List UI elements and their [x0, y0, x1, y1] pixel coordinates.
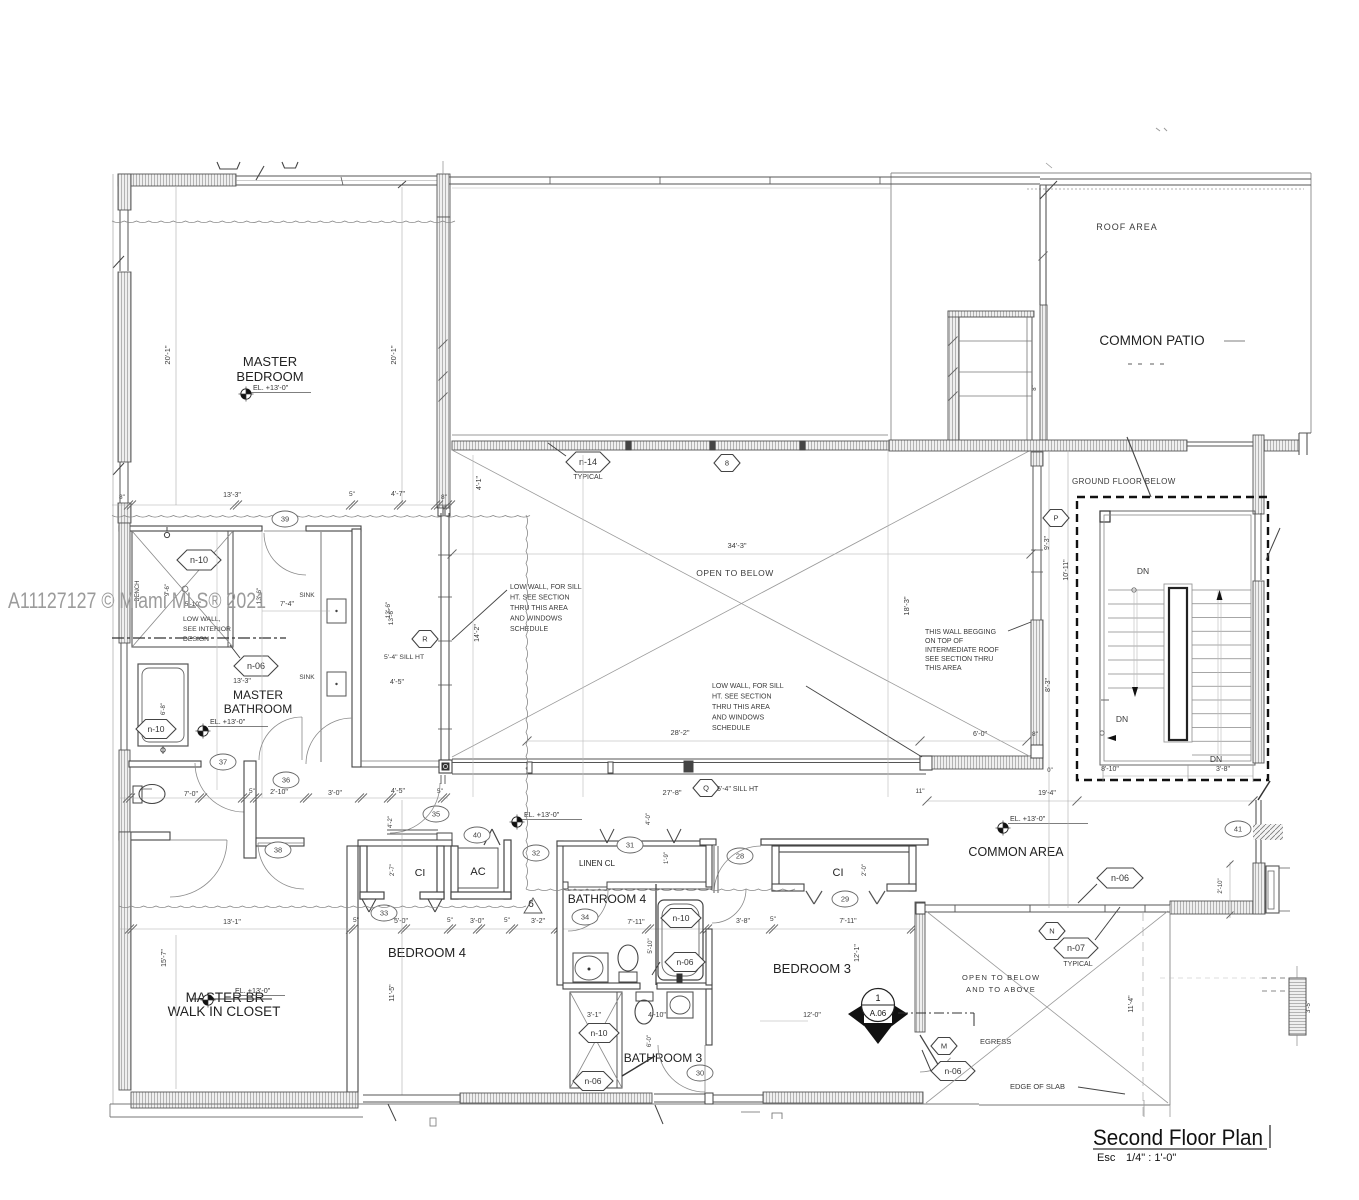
posts top band — [626, 441, 631, 450]
wall bedroom3 east hatch — [915, 902, 925, 1032]
wall linen west — [557, 841, 563, 985]
window band east — [1266, 866, 1279, 913]
vertical dims right of open below — [1048, 452, 1050, 908]
stair right hatch band — [1253, 581, 1264, 763]
corridor dim row — [119, 797, 448, 799]
svg-text:BATHROOM: BATHROOM — [224, 702, 292, 716]
svg-text:11": 11" — [915, 788, 925, 795]
wall open below east: hatch top — [1031, 452, 1043, 466]
svg-text:n-10: n-10 — [672, 913, 689, 923]
window band roof top — [449, 176, 1040, 178]
oval 29 — [832, 891, 858, 907]
toilet bathroom4 — [618, 945, 638, 971]
svg-text:SINK: SINK — [299, 674, 315, 681]
svg-text:SINK: SINK — [299, 592, 315, 599]
window east open below — [1032, 466, 1034, 620]
svg-text:4'-10": 4'-10" — [648, 1012, 666, 1019]
svg-text:n-07: n-07 — [1067, 943, 1085, 953]
hexagon Q — [693, 780, 719, 797]
svg-text:n-10: n-10 — [147, 724, 164, 734]
svg-text:EDGE OF SLAB: EDGE OF SLAB — [1010, 1082, 1065, 1091]
wall east hatch lower (begging wall) — [1031, 620, 1043, 745]
svg-text:7'-0": 7'-0" — [184, 791, 198, 798]
door arc master bathroom entry — [264, 533, 306, 575]
svg-text:14'-2": 14'-2" — [474, 624, 481, 642]
wall master bathroom west hatch upper — [119, 523, 130, 643]
extension lines right stair — [1143, 1100, 1145, 1117]
svg-text:Second Floor Plan: Second Floor Plan — [1093, 1125, 1263, 1150]
low wall open below west — [440, 513, 442, 760]
wall corner NE master bedroom — [437, 174, 450, 217]
roof drain brackets top — [217, 162, 240, 169]
svg-text:ROOF AREA: ROOF AREA — [1096, 222, 1158, 232]
AC door mark — [484, 829, 492, 845]
wall linen north — [557, 841, 712, 846]
section marker 1/A.06 — [848, 1004, 864, 1026]
hexagon M — [931, 1038, 957, 1055]
patio west door mark — [1040, 181, 1057, 199]
wall divider vertical — [244, 761, 256, 858]
window master bedroom north band — [236, 175, 437, 177]
wall stub right — [1264, 440, 1299, 451]
hexagon n-14 typical — [566, 452, 610, 472]
svg-text:8": 8" — [1032, 385, 1038, 390]
svg-text:n-14: n-14 — [579, 457, 597, 467]
door arc corridor to common — [440, 775, 442, 784]
wall master bedroom north — [118, 174, 236, 186]
corner column common — [1253, 863, 1265, 914]
hexagon R — [412, 631, 438, 648]
dashed boundary ground floor below — [1077, 497, 1268, 780]
oval 28 — [727, 848, 753, 864]
svg-text:13'-6": 13'-6" — [388, 608, 395, 625]
svg-text:LINEN CL: LINEN CL — [579, 859, 616, 868]
wall toilet south / closet north — [119, 832, 170, 840]
svg-text:3'-8": 3'-8" — [736, 918, 750, 925]
oval 31 — [617, 837, 643, 853]
svg-text:EGRESS: EGRESS — [980, 1037, 1011, 1046]
svg-text:40: 40 — [473, 831, 481, 840]
wall vertical right of stairs top — [1253, 435, 1264, 514]
hexagon n-10 bathroom4 — [661, 909, 701, 928]
sink bathroom4 — [573, 953, 608, 982]
svg-text:31: 31 — [626, 841, 634, 850]
oval 30 — [687, 1065, 713, 1081]
svg-text:5": 5" — [504, 917, 511, 924]
window master bedroom west upper — [119, 210, 121, 271]
wall closet east — [347, 846, 358, 1092]
svg-text:13'-3": 13'-3" — [223, 492, 241, 499]
svg-text:5": 5" — [249, 788, 256, 795]
svg-text:BEDROOM: BEDROOM — [236, 369, 303, 384]
svg-text:1/4" : 1'-0": 1/4" : 1'-0" — [1126, 1152, 1176, 1164]
wall block west — [118, 503, 131, 523]
dim 2-10 extent — [1229, 862, 1231, 918]
vanity counter master bathroom — [320, 532, 322, 762]
left outer slab line — [112, 174, 114, 1104]
svg-text:29: 29 — [841, 895, 849, 904]
svg-text:20'-1": 20'-1" — [163, 345, 172, 364]
wall common east thick — [1170, 901, 1265, 914]
svg-text:8: 8 — [725, 459, 729, 468]
svg-text:5": 5" — [447, 917, 454, 924]
hexagon n-06 egress — [931, 1062, 975, 1081]
svg-text:THRU THIS AREA: THRU THIS AREA — [712, 704, 770, 711]
svg-text:INTERMEDIATE ROOF: INTERMEDIATE ROOF — [925, 647, 999, 654]
svg-text:30: 30 — [696, 1069, 704, 1078]
svg-text:LOW WALL, FOR SILL: LOW WALL, FOR SILL — [510, 584, 582, 591]
open to below and above diagonals — [926, 911, 1168, 1103]
svg-text:Q: Q — [703, 784, 709, 793]
hexagon N — [1039, 923, 1065, 940]
svg-text:N: N — [1049, 927, 1054, 936]
svg-text:8'-10": 8'-10" — [1101, 766, 1119, 773]
svg-text:3'-5": 3'-5" — [1306, 1001, 1312, 1013]
extension lines — [472, 455, 474, 797]
svg-text:AND WINDOWS: AND WINDOWS — [510, 616, 562, 623]
svg-text:THIS WALL BEGGING: THIS WALL BEGGING — [925, 629, 996, 636]
svg-text:12'-0": 12'-0" — [803, 1012, 821, 1019]
stair enclosure — [1100, 511, 1255, 765]
svg-text:5": 5" — [353, 917, 360, 924]
oval 35 — [423, 806, 449, 822]
oval 34 — [572, 909, 598, 925]
svg-text:6'-0": 6'-0" — [973, 731, 987, 738]
svg-text:MASTER: MASTER — [243, 354, 297, 369]
wall bathroom4 south — [563, 983, 640, 989]
svg-text:DN: DN — [1210, 754, 1222, 764]
svg-text:5'-4" SILL HT: 5'-4" SILL HT — [717, 786, 759, 793]
hexagon n-10 tub — [136, 720, 176, 739]
svg-text:BEDROOM 3: BEDROOM 3 — [773, 961, 851, 976]
svg-text:TYPICAL: TYPICAL — [573, 474, 602, 481]
svg-text:A11127127 © Miami MLS® 2021: A11127127 © Miami MLS® 2021 — [8, 588, 266, 613]
svg-text:MASTER: MASTER — [233, 688, 283, 702]
low wall common area — [922, 904, 1170, 906]
svg-text:BATHROOM 4: BATHROOM 4 — [568, 892, 647, 906]
toilet bathroom3 — [635, 1000, 653, 1024]
svg-text:7'-11": 7'-11" — [839, 918, 857, 925]
svg-text:37: 37 — [219, 758, 227, 767]
svg-text:LOW WALL,: LOW WALL, — [183, 616, 221, 623]
oval 39 — [272, 511, 298, 527]
svg-text:33: 33 — [380, 909, 388, 918]
svg-text:5": 5" — [349, 491, 356, 498]
svg-text:20'-1": 20'-1" — [389, 345, 398, 364]
wall post base east — [438, 505, 443, 516]
wall master bathroom west hatch lower — [119, 750, 130, 832]
svg-text:HT. SEE SECTION: HT. SEE SECTION — [712, 694, 772, 701]
svg-text:8'-3": 8'-3" — [1045, 678, 1052, 692]
corner — [1031, 745, 1043, 758]
svg-text:DESIGN: DESIGN — [183, 636, 209, 643]
wall bedroom3 south hatch — [763, 1092, 923, 1103]
svg-text:11'-4": 11'-4" — [1128, 995, 1135, 1013]
svg-text:2'-0": 2'-0" — [862, 864, 868, 876]
wall master bathroom north — [119, 526, 262, 531]
svg-text:ON TOP OF: ON TOP OF — [925, 638, 963, 645]
wall closet north right piece — [256, 838, 304, 846]
stair core — [1164, 584, 1192, 742]
svg-text:SEE INTERIOR: SEE INTERIOR — [183, 626, 231, 633]
svg-text:34: 34 — [581, 913, 589, 922]
dim row master bedroom bottom — [112, 504, 452, 506]
svg-text:13'-3": 13'-3" — [233, 678, 251, 685]
oval 32 — [523, 845, 549, 861]
svg-text:7'-11": 7'-11" — [627, 919, 645, 926]
chimney structure — [948, 311, 959, 442]
svg-text:CI: CI — [833, 867, 844, 879]
tick north window — [341, 177, 343, 185]
wall divider bathroom4 — [655, 884, 657, 985]
svg-text:P: P — [1053, 514, 1058, 523]
svg-text:32: 32 — [532, 849, 540, 858]
svg-text:BATHROOM 3: BATHROOM 3 — [624, 1051, 703, 1065]
showerhead — [164, 532, 169, 537]
svg-text:11'-5": 11'-5" — [389, 984, 396, 1002]
svg-text:4'-1": 4'-1" — [476, 476, 483, 490]
svg-text:2'-7": 2'-7" — [390, 864, 396, 876]
oval 41 — [1225, 821, 1251, 837]
door arc closet — [170, 840, 227, 897]
svg-text:EL. +13'-0": EL. +13'-0" — [253, 383, 289, 392]
top thin line open below — [452, 434, 888, 436]
closet AC bedroom4 — [451, 846, 458, 899]
svg-text:AND TO ABOVE: AND TO ABOVE — [966, 985, 1036, 994]
svg-text:EL. +13'-0": EL. +13'-0" — [1010, 814, 1046, 823]
door swing marks west wall — [113, 256, 124, 268]
hexagon P — [1043, 510, 1069, 527]
svg-text:5'-10": 5'-10" — [648, 938, 654, 953]
svg-text:15'-7": 15'-7" — [161, 949, 168, 967]
hexagon n-07 typical — [1054, 938, 1098, 958]
hexagon 8 — [714, 455, 740, 472]
svg-text:HT. SEE SECTION: HT. SEE SECTION — [510, 595, 570, 602]
stair treads right — [1192, 589, 1251, 591]
svg-text:10'-11": 10'-11" — [1063, 559, 1070, 581]
shower bathroom3 — [570, 992, 622, 1088]
door leaf mark north window — [256, 166, 264, 180]
corner post se — [920, 756, 932, 770]
svg-text:4'-5": 4'-5" — [390, 679, 404, 686]
door arc bathroom4 east — [712, 889, 746, 923]
stair door leaf right — [1266, 528, 1280, 560]
V fold door marks below CI — [362, 899, 369, 912]
hexagon n-06 bathroom3 — [573, 1072, 613, 1091]
svg-text:5'-0": 5'-0" — [394, 918, 408, 925]
svg-text:13'-1": 13'-1" — [223, 919, 241, 926]
hexagon n-06 common — [1097, 868, 1143, 888]
svg-text:n-06: n-06 — [584, 1076, 601, 1086]
hexagon n-10 shower — [177, 550, 221, 570]
patio dots — [1128, 363, 1132, 365]
svg-text:SCHEDULE: SCHEDULE — [712, 725, 750, 732]
svg-text:COMMON AREA: COMMON AREA — [968, 845, 1064, 859]
svg-text:39: 39 — [281, 515, 289, 524]
tub bathroom4 — [658, 900, 703, 980]
svg-text:n-06: n-06 — [247, 661, 265, 671]
sink 1 — [327, 599, 346, 623]
svg-text:41: 41 — [1234, 825, 1242, 834]
window detail right — [1289, 978, 1306, 1035]
wall bedroom4 south hatch — [460, 1093, 652, 1103]
wall corner NW master bedroom — [118, 174, 131, 210]
svg-text:Esc: Esc — [1097, 1152, 1116, 1164]
svg-text:8": 8" — [1032, 731, 1039, 738]
stair rails dots — [1132, 588, 1136, 592]
svg-text:6'-8": 6'-8" — [161, 703, 167, 715]
svg-text:3'-2": 3'-2" — [531, 918, 545, 925]
svg-text:THRU THIS AREA: THRU THIS AREA — [510, 605, 568, 612]
corner post sw — [439, 760, 452, 773]
svg-text:AC: AC — [470, 866, 485, 878]
svg-text:27'-8": 27'-8" — [662, 788, 681, 797]
dim line master bedroom vertical right 20-1 — [401, 187, 403, 505]
door arc toilet — [195, 763, 244, 812]
wall south bathroom3 door section — [654, 1093, 705, 1095]
svg-text:n-06: n-06 — [944, 1066, 961, 1076]
svg-text:R: R — [422, 635, 428, 644]
svg-text:34'-3": 34'-3" — [727, 541, 746, 550]
window master bedroom west lower — [119, 462, 121, 503]
svg-text:BEDROOM 4: BEDROOM 4 — [388, 945, 466, 960]
V marks bedroom3 closet — [806, 891, 814, 904]
south wall right thin part — [1187, 441, 1253, 443]
sink bathroom3 — [667, 992, 693, 1018]
door arc bedroom3 — [714, 846, 761, 893]
oval 33 — [371, 905, 397, 921]
wall master bathroom east — [352, 529, 361, 767]
hatch patch 41 — [1253, 824, 1283, 840]
svg-text:3'-1": 3'-1" — [587, 1012, 601, 1019]
svg-text:36: 36 — [282, 776, 290, 785]
svg-text:A.06: A.06 — [870, 1009, 887, 1018]
svg-text:TYPICAL: TYPICAL — [1063, 961, 1092, 968]
svg-text:4'-2": 4'-2" — [388, 816, 394, 828]
svg-text:9'-3": 9'-3" — [1044, 536, 1051, 550]
svg-text:EL. +13'-0": EL. +13'-0" — [235, 986, 271, 995]
shower master bathroom — [132, 531, 233, 647]
svg-text:n-06: n-06 — [676, 957, 693, 967]
svg-text:CI: CI — [415, 867, 426, 879]
svg-text:5": 5" — [770, 916, 777, 923]
dim row y929 left — [119, 928, 913, 930]
svg-text:4'-5": 4'-5" — [391, 788, 405, 795]
oval 40 — [464, 827, 490, 843]
closet CI bedroom3 — [761, 839, 928, 845]
wall south right hatch — [932, 756, 1043, 769]
wall master bedroom west hatch — [118, 272, 131, 462]
wall corridor to bedroom3 — [700, 839, 716, 845]
svg-text:12'-1": 12'-1" — [854, 944, 861, 962]
svg-text:THIS AREA: THIS AREA — [925, 665, 962, 672]
wall open below north hatch — [452, 441, 1043, 450]
tub master bathroom — [138, 664, 188, 746]
wall bedroom4 south window — [363, 1094, 460, 1096]
svg-text:OPEN TO BELOW: OPEN TO BELOW — [696, 568, 774, 578]
wall closet south hatched — [131, 1092, 358, 1108]
elevation marker closet — [203, 995, 213, 1005]
wall master bedroom east hatch — [437, 217, 450, 508]
stair left wall end hook — [1101, 699, 1109, 701]
break line master bathroom top — [112, 516, 530, 518]
low wall dashdot master bathroom — [112, 637, 286, 639]
svg-text:5": 5" — [437, 788, 444, 795]
door mark below window — [388, 1104, 396, 1121]
closet CI bedroom4 — [360, 846, 367, 899]
elevation marker master bathroom — [198, 726, 208, 736]
svg-text:M: M — [941, 1042, 947, 1051]
svg-text:LOW WALL, FOR SILL: LOW WALL, FOR SILL — [712, 683, 784, 690]
svg-text:DN: DN — [1137, 566, 1149, 576]
svg-text:4'-0": 4'-0" — [646, 813, 652, 825]
door arc bathroom3 — [658, 1045, 705, 1092]
svg-text:WALK IN CLOSET: WALK IN CLOSET — [168, 1004, 281, 1019]
svg-text:3'-8": 3'-8" — [1216, 766, 1230, 773]
svg-text:5'-4" SILL HT: 5'-4" SILL HT — [384, 654, 424, 661]
svg-text:2'-10": 2'-10" — [1218, 878, 1224, 893]
boundary lines open below right — [1169, 905, 1171, 1105]
svg-text:19'-4": 19'-4" — [1038, 790, 1056, 797]
door arc vanity — [306, 718, 352, 764]
break lines — [526, 515, 528, 889]
sink 2 — [327, 672, 346, 696]
stray marks top — [1156, 128, 1160, 131]
oval 38 — [265, 842, 291, 858]
hexagon n-10 bathroom3 — [579, 1024, 619, 1043]
wall toilet room north — [129, 761, 201, 767]
slab edge lines bottom left — [110, 1103, 979, 1105]
svg-text:28'-2": 28'-2" — [670, 728, 689, 737]
svg-text:n-10: n-10 — [590, 1028, 607, 1038]
wall common northeast double — [1255, 800, 1257, 863]
low wall open below south — [452, 758, 926, 760]
svg-text:DN: DN — [1116, 714, 1128, 724]
svg-text:AND WINDOWS: AND WINDOWS — [712, 715, 764, 722]
window master bathroom west — [120, 643, 122, 750]
svg-text:GROUND FLOOR BELOW: GROUND FLOOR BELOW — [1072, 477, 1176, 486]
elevation marker common area — [998, 823, 1008, 833]
wall bathrooms east — [706, 841, 712, 887]
svg-text:0": 0" — [1047, 768, 1052, 774]
svg-text:35: 35 — [432, 810, 440, 819]
stair arrows — [1217, 590, 1223, 600]
dashdot egress line — [898, 1012, 974, 1014]
svg-text:3'-0": 3'-0" — [328, 790, 342, 797]
svg-text:3'-0": 3'-0" — [470, 918, 484, 925]
svg-text:COMMON PATIO: COMMON PATIO — [1099, 333, 1204, 348]
door arc inner bath — [259, 717, 302, 760]
stair treads left — [1108, 589, 1164, 591]
svg-text:1: 1 — [875, 993, 880, 1003]
svg-text:18'-3": 18'-3" — [902, 596, 911, 615]
svg-text:OPEN TO BELOW: OPEN TO BELOW — [962, 973, 1040, 982]
oval 36 — [273, 772, 299, 788]
roof outline top — [891, 172, 1311, 174]
wall closet west hatch — [119, 832, 131, 1090]
svg-text:6'-0": 6'-0" — [647, 1035, 653, 1047]
wall linen south — [563, 882, 568, 889]
svg-text:n-06: n-06 — [1111, 873, 1129, 883]
dim line master bedroom vertical left 20-1 — [175, 187, 177, 505]
elevation marker corridor — [512, 817, 522, 827]
svg-text:SEE SECTION THRU: SEE SECTION THRU — [925, 656, 993, 663]
hexagon n-06 master bathroom — [234, 656, 278, 676]
svg-text:8": 8" — [441, 494, 448, 501]
oval 37 — [210, 754, 236, 770]
door arc bedroom4 — [258, 843, 304, 889]
svg-text:7'-4": 7'-4" — [280, 601, 294, 608]
